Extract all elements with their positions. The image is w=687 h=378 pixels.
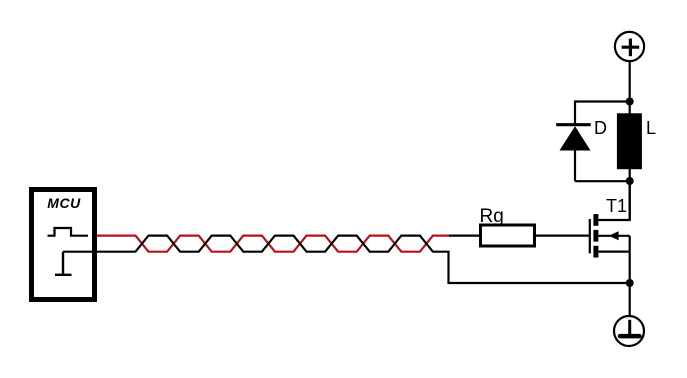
- transistor T1 (N-MOSFET): [590, 181, 630, 283]
- source/body vertical: [629, 236, 631, 283]
- wire: resistor Rg to gate of T1: [536, 235, 590, 237]
- ground symbol inside MCU: [55, 252, 72, 275]
- wire: source junction to ground terminal: [629, 283, 631, 315]
- ground terminal: [614, 316, 644, 346]
- svg-text:MCU: MCU: [47, 195, 81, 211]
- power supply + terminal: [615, 32, 644, 61]
- wire: red twisted-pair conductor from MCU signal output: [97, 236, 449, 252]
- channel bar source: [593, 246, 598, 258]
- wire: top junction to diode branch: [575, 102, 630, 124]
- svg-text:Rg: Rg: [480, 206, 504, 227]
- body wire with arrow: [598, 235, 629, 237]
- drain wire: [598, 181, 629, 220]
- inductor L: [617, 113, 642, 169]
- svg-text:L: L: [646, 118, 656, 138]
- diode D (freewheeling, cathode up): [556, 118, 607, 181]
- node: inductor bottom / drain junction: [626, 177, 634, 185]
- wire: diode anode to bottom junction: [575, 180, 630, 182]
- gate plate: [589, 219, 591, 253]
- channel bar body: [593, 230, 598, 242]
- svg-text:T1: T1: [606, 196, 627, 216]
- channel bar drain: [593, 214, 598, 226]
- wire: supply rail down through L to drain: [629, 62, 631, 220]
- pulse waveform symbol inside MCU: [48, 228, 89, 236]
- resistor Rg: [481, 225, 535, 246]
- wire: black twisted-pair conductor from MCU ground, bottom run to source node: [63, 236, 630, 283]
- MCU box: [32, 190, 95, 300]
- node: drain / freewheel top junction: [626, 98, 634, 106]
- wire: gate feed from twisted pair to resistor Rg: [449, 235, 480, 237]
- svg-text:D: D: [594, 118, 607, 138]
- node: source junction: [626, 279, 634, 287]
- source wire: [598, 251, 629, 253]
